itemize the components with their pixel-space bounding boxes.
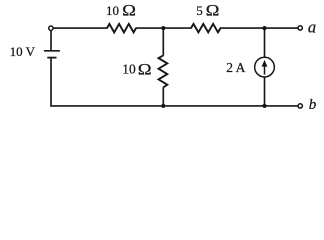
voltage source V1 battery long plate [44, 50, 60, 52]
svg-text:10: 10 [106, 3, 119, 18]
terminal a circle [298, 26, 302, 30]
wire top rail: R2 to terminal a [220, 27, 298, 29]
junction dot bottom middle [161, 104, 165, 108]
svg-text:b: b [309, 97, 317, 113]
resistor R1 10 ohm top-left zigzag [107, 24, 136, 33]
current source I1 arrow head [262, 60, 268, 67]
resistor R2 5 ohm top-right zigzag [191, 24, 221, 33]
voltage source V1 battery short plate [47, 57, 56, 59]
svg-text:5: 5 [196, 3, 203, 18]
terminal b circle [298, 104, 302, 108]
wire right branch top: junction to current source [264, 28, 266, 57]
svg-text:10: 10 [122, 62, 136, 77]
wire left branch: node A down to battery [50, 31, 52, 51]
wire top rail: R1 to R2 through junction [136, 27, 192, 29]
svg-text:Ω: Ω [122, 2, 136, 19]
wire top rail: node A to resistor R1 [53, 27, 108, 29]
wire bottom rail: battery to terminal b [51, 58, 298, 106]
svg-text:Ω: Ω [138, 61, 152, 78]
junction dot top right [262, 26, 266, 30]
junction dot top middle [161, 26, 165, 30]
svg-text:2 A: 2 A [226, 60, 245, 75]
wire middle branch bottom: R3 to bottom rail [162, 87, 164, 106]
wire right branch bottom: current source to bottom rail [264, 77, 266, 106]
wire middle branch top: junction to R3 [162, 28, 164, 55]
resistor R3 10 ohm middle vertical zigzag [159, 55, 168, 87]
svg-text:a: a [308, 18, 316, 37]
junction dot bottom right [262, 104, 266, 108]
node A circle (top of source) [49, 26, 53, 30]
current source I1 arrow shaft [264, 64, 266, 74]
svg-text:10 V: 10 V [10, 44, 36, 59]
current source I1 circle [255, 57, 275, 77]
svg-text:Ω: Ω [206, 2, 220, 19]
